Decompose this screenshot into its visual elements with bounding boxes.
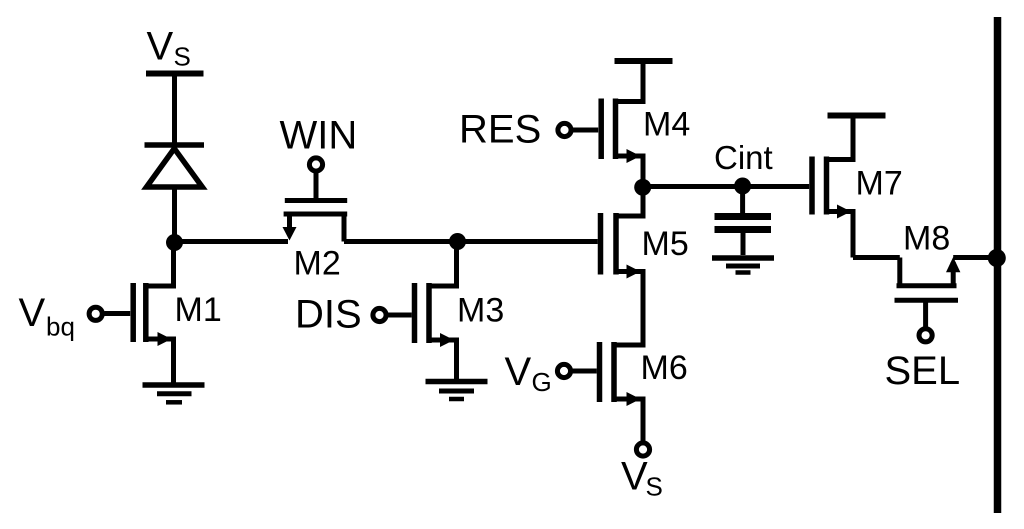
photodiode D1 bbox=[145, 145, 205, 187]
svg-text:M4: M4 bbox=[643, 106, 690, 144]
svg-text:M2: M2 bbox=[294, 245, 341, 283]
transistor M2 bbox=[283, 201, 348, 242]
wire diode to node A bbox=[172, 187, 177, 246]
wire DIS to M3 gate bbox=[388, 313, 412, 318]
transistor M6 bbox=[600, 300, 644, 441]
wire M8 drain to column bus bbox=[953, 255, 997, 260]
wire Cint node to M7 gate bbox=[643, 184, 810, 189]
svg-text:DIS: DIS bbox=[295, 293, 362, 337]
transistor M7 bbox=[812, 116, 853, 258]
svg-text:M5: M5 bbox=[642, 225, 689, 263]
label VS bottom bbox=[621, 455, 663, 502]
svg-text:M8: M8 bbox=[903, 220, 950, 258]
svg-text:V: V bbox=[621, 455, 648, 499]
transistor M3 bbox=[415, 245, 457, 380]
svg-text:RES: RES bbox=[459, 108, 541, 152]
power rail VS top (T-bar) bbox=[146, 74, 204, 146]
ground Cint bbox=[712, 258, 774, 273]
transistor M5 bbox=[601, 190, 644, 345]
wire VG to M6 gate bbox=[573, 369, 597, 374]
terminal SEL circle bbox=[919, 329, 932, 342]
power rail M7 (T-bar) bbox=[828, 116, 886, 161]
wire node A to M2 source bbox=[175, 239, 289, 244]
svg-text:V: V bbox=[147, 25, 174, 69]
terminal DIS circle bbox=[373, 308, 386, 321]
label VS top bbox=[147, 25, 191, 72]
ground M3 bbox=[426, 382, 488, 400]
svg-text:M7: M7 bbox=[856, 165, 903, 203]
label VG bbox=[505, 350, 552, 397]
wire Vbq to M1 gate bbox=[105, 311, 131, 316]
wire M7 source to M8 bbox=[853, 255, 900, 260]
svg-text:SEL: SEL bbox=[885, 349, 961, 393]
wire M8 gate stub bbox=[923, 300, 928, 328]
transistor M4 bbox=[601, 61, 643, 184]
svg-text:V: V bbox=[19, 291, 46, 335]
node A junction dot bbox=[166, 234, 183, 251]
svg-text:Cint: Cint bbox=[714, 139, 773, 176]
svg-text:S: S bbox=[174, 42, 191, 72]
terminal VS bottom circle bbox=[636, 443, 649, 456]
svg-text:M3: M3 bbox=[457, 292, 504, 330]
svg-text:M6: M6 bbox=[641, 349, 688, 387]
terminal VG circle bbox=[557, 364, 570, 377]
svg-text:M1: M1 bbox=[175, 291, 222, 329]
svg-text:WIN: WIN bbox=[280, 114, 358, 158]
wire WIN to M2 gate bbox=[314, 172, 319, 201]
node B junction dot bbox=[449, 233, 466, 250]
svg-text:bq: bq bbox=[46, 312, 75, 342]
node Cint junction dot (M4/M5) bbox=[634, 179, 651, 196]
terminal RES circle bbox=[558, 123, 571, 136]
power rail M4 (T-bar) bbox=[615, 61, 673, 101]
node column junction dot bbox=[988, 249, 1006, 267]
wire RES to M4 gate bbox=[573, 128, 598, 133]
transistor M1 bbox=[133, 242, 173, 383]
label Vbq bbox=[19, 291, 75, 342]
svg-text:S: S bbox=[646, 472, 663, 502]
wire M2 drain to M5 gate bbox=[344, 239, 598, 244]
terminal WIN circle bbox=[309, 158, 322, 171]
svg-text:V: V bbox=[505, 350, 532, 394]
svg-text:G: G bbox=[532, 367, 552, 397]
capacitor Cint bbox=[715, 186, 772, 255]
column bus line bbox=[994, 17, 1002, 513]
ground M1 bbox=[143, 385, 205, 402]
terminal Vbq circle bbox=[89, 307, 102, 320]
transistor M8 bbox=[895, 257, 961, 300]
node Cint cap junction dot bbox=[734, 178, 751, 195]
